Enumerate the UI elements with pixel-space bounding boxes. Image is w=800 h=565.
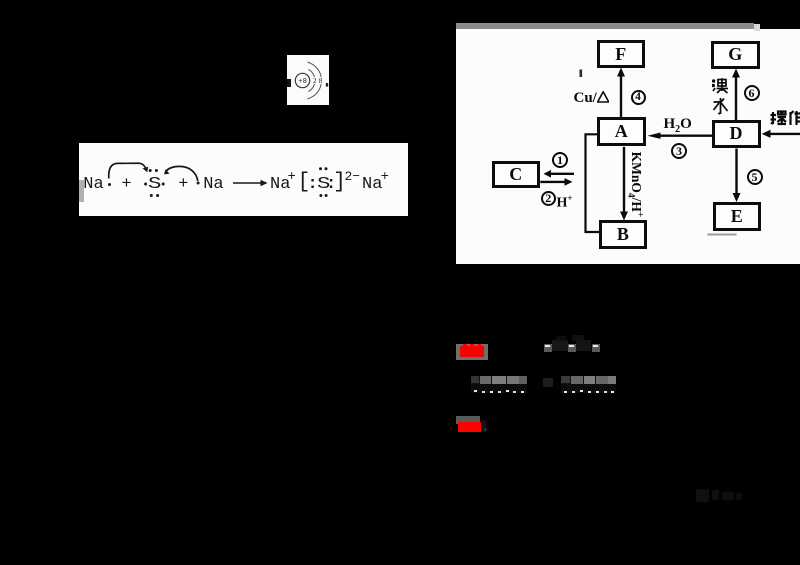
arrowhead into E (732, 193, 740, 202)
circled 1 (552, 152, 568, 168)
nucleus circle +8 (295, 73, 309, 87)
small mark left of Cu (579, 69, 582, 77)
label H2O (664, 117, 692, 137)
svg-text:8: 8 (319, 77, 323, 85)
svg-text:+8: +8 (298, 78, 307, 85)
+ (121, 176, 131, 193)
S top dots (149, 169, 152, 172)
red highlight box 2 (456, 416, 480, 425)
flowchart white panel (456, 29, 800, 264)
dot before second Na (197, 182, 200, 185)
circled 2 (541, 191, 557, 207)
atom structure diagram box (O2- ion 2,8) (287, 55, 329, 105)
Na+ product2 (362, 176, 382, 193)
bracket joining A and B left sides (585, 134, 599, 232)
arrowhead out of C (reaction 2) (564, 178, 572, 186)
arrowhead into C (reaction 1) (543, 170, 551, 178)
bracket S top dots (319, 167, 322, 170)
arrow C upper (into C) (549, 172, 574, 174)
arrowhead into A (from D) (647, 132, 660, 138)
box D (712, 120, 761, 149)
arrow A to B (622, 146, 624, 214)
[ :S: ]2- (298, 172, 311, 193)
flowchart arrows svg (456, 23, 800, 264)
faint gray marks row (mid) (544, 344, 552, 352)
circled 4 (631, 90, 646, 106)
label Cu/triangle (574, 91, 616, 106)
gray smudge under box E (707, 233, 736, 235)
svg-text:2: 2 (313, 77, 317, 85)
arrow right edge to D (769, 132, 800, 134)
+ (178, 176, 188, 193)
middle faint blob (543, 378, 553, 387)
box B (599, 220, 647, 249)
white specks (474, 390, 477, 392)
溴 (712, 80, 714, 82)
label 操作 (operation, drawn, clipped at right edge) (770, 110, 800, 127)
操 (771, 112, 773, 124)
bottom-right very faint text (696, 489, 709, 502)
circled 6 (744, 85, 760, 101)
label 溴水 (bromine water, drawn) (712, 78, 729, 116)
bracket S bottom dots (319, 194, 322, 197)
box C (492, 161, 540, 188)
shell arc 2 (307, 62, 321, 99)
arrow D to G (734, 76, 736, 120)
gray bar right light end (754, 24, 761, 31)
gray cursor block (79, 180, 84, 203)
right edge dot (326, 83, 328, 87)
S bottom dots (150, 194, 153, 197)
arrowhead into B (620, 211, 628, 220)
label KMnO4/H+ (rotated) (632, 149, 647, 219)
lone dot after first Na (108, 183, 111, 186)
水 (719, 98, 721, 114)
curved arrow right Na -> S (165, 166, 198, 181)
作 (partially cut) (789, 112, 791, 125)
faint text row lower: right segment (561, 376, 616, 384)
text Na (83, 176, 103, 193)
curved arrow left Na -> S (109, 163, 147, 178)
reaction arrow (233, 182, 264, 184)
svg overlay: dots, curved arrows, reaction arrow (79, 143, 408, 216)
box F (597, 40, 645, 68)
arrowhead into G (732, 68, 740, 77)
box E (713, 202, 761, 232)
dot left of S (144, 183, 147, 186)
red highlight box 1 (456, 344, 488, 360)
arrow C lower (out of C) (540, 180, 565, 182)
circled 5 (747, 169, 763, 185)
circled 3 (671, 143, 687, 159)
shell arc 1 (308, 69, 315, 91)
electron-transfer equation white box (79, 143, 408, 216)
arrow D to A (658, 134, 712, 136)
dot right of S (162, 183, 165, 186)
label H+ after circled2 (557, 191, 573, 211)
left edge mark (287, 79, 291, 87)
box A (597, 117, 646, 146)
panel top gray bar (456, 23, 754, 30)
arrow D to E (735, 148, 737, 197)
S (148, 176, 161, 193)
arrowhead into F (617, 67, 625, 76)
arrowhead into D (from right) (761, 129, 770, 137)
box G (711, 41, 760, 70)
arrow A to F (619, 75, 621, 118)
faint text row lower: left segment (471, 376, 527, 384)
Na+ product1 (270, 176, 290, 193)
Na (203, 176, 223, 193)
